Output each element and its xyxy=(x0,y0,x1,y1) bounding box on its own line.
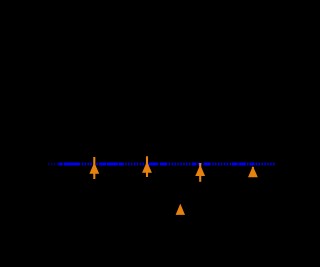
blue dash segment 7 xyxy=(148,163,157,166)
blue dash segment 14 xyxy=(250,163,255,166)
blue dash segment 3 xyxy=(74,163,79,166)
blue dash segment 13 xyxy=(240,163,246,166)
blue dash segment 1 xyxy=(60,163,62,166)
triangle marker point 4 xyxy=(248,166,258,177)
errorbar of point 1 xyxy=(93,157,95,179)
blue dash segment 11 xyxy=(205,163,210,166)
blue dash segment 12 xyxy=(232,163,238,166)
triangle marker point 1 xyxy=(89,162,99,173)
blue dotted reference line xyxy=(59,163,276,166)
blue dash segment 10 xyxy=(198,163,200,166)
errorbar of point 2 xyxy=(146,156,148,177)
blue dash segment 6 xyxy=(119,163,124,166)
blue dotted reference line lead-in (faint) xyxy=(48,163,59,166)
triangle marker point 5 (outlier below line) xyxy=(176,204,185,215)
blue dash segment 5 xyxy=(107,163,117,166)
blue dash segment 8 xyxy=(160,163,166,166)
errorbar of point 3 xyxy=(199,163,201,182)
errorbar of point 4 (hidden behind marker) xyxy=(252,167,254,177)
triangle marker point 2 xyxy=(142,161,152,172)
blue dash segment 2 xyxy=(64,163,73,166)
triangle marker point 3 xyxy=(195,165,205,176)
blue dash segment 4 xyxy=(101,163,106,166)
blue dash segment 9 xyxy=(192,163,196,166)
